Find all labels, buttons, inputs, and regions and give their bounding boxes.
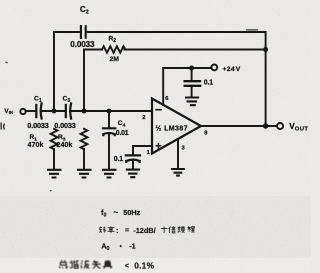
scan artifact dot top-left [6, 62, 8, 63]
scan artifact smear on top line [246, 29, 258, 31]
svg-text::: : [116, 226, 118, 235]
svg-text:0.1%: 0.1% [134, 261, 154, 271]
note line 2 hanzi: shi bei pin cheng (decade) [161, 227, 168, 234]
capacitor C4 [103, 128, 115, 135]
node B junction dot [82, 109, 87, 114]
ground (pin 3) [171, 169, 185, 176]
capacitor 0.1 at pin 1 [126, 155, 140, 162]
wire: C3 to op-amp inverting input pin 2 [70, 110, 152, 112]
wire: supply rail to +24V terminal [163, 67, 211, 69]
capacitor C2 [81, 26, 86, 38]
svg-text:0.0033: 0.0033 [54, 121, 76, 130]
op-amp minus sign [156, 109, 161, 111]
feedback/R2 junction dot [263, 47, 268, 52]
svg-text:•: • [120, 243, 122, 250]
VOUT terminal [277, 123, 283, 129]
svg-text:0.01: 0.01 [116, 130, 129, 137]
ground (R3) [77, 170, 92, 178]
resistor R2 [102, 46, 125, 53]
wire: C2 to right feedback corner [86, 31, 266, 33]
op-amp plus sign [156, 144, 160, 148]
resistor R1 [51, 129, 58, 149]
svg-text:50Hz: 50Hz [123, 208, 140, 217]
scan artifact dot below R1 [50, 190, 52, 193]
svg-text:470k: 470k [28, 142, 44, 149]
node A junction dot [52, 109, 57, 114]
wire: node A up to top feedback line [53, 32, 55, 111]
ground (R1) [47, 170, 62, 178]
svg-text:-1: -1 [129, 242, 136, 251]
wire: R1 bottom to ground [53, 149, 55, 169]
wire: node C down to C4 [108, 111, 110, 128]
wire: pin 3 to ground [177, 140, 179, 168]
wire: supply bypass capacitor drop [191, 68, 193, 80]
svg-text:0.0033: 0.0033 [27, 121, 49, 130]
svg-text:0.1: 0.1 [114, 156, 123, 163]
wire: supply bypass capacitor to ground [191, 87, 193, 97]
svg-text:-12dB/: -12dB/ [133, 226, 155, 235]
capacitor C3 [66, 104, 71, 119]
supply junction dot [189, 66, 194, 71]
wire: pin 6 up to supply rail [162, 68, 164, 105]
capacitor 0.1 supply bypass [185, 81, 201, 86]
note line 2 hanzi: xie lv (slope) [99, 227, 106, 233]
ground (C4) [102, 170, 117, 178]
wire: output pin 8 to VOUT [201, 125, 277, 127]
ground (pin 1 bypass) [126, 170, 140, 178]
op-amp U1 half LM387 [152, 99, 201, 154]
svg-text:2: 2 [142, 115, 145, 121]
wire: op-amp pin 1 to bypass capacitor [133, 146, 152, 154]
wire: C1 to node A [41, 110, 65, 112]
wire: top feedback line to C2 [54, 31, 81, 33]
wire: R2 line left segment [84, 49, 102, 51]
capacitor C1 [36, 104, 41, 119]
svg-text:=: = [125, 228, 129, 235]
wire: C4 to ground [108, 135, 110, 169]
wire: node B up to R2 line [83, 50, 85, 112]
svg-text:+24V: +24V [223, 66, 241, 73]
node C junction dot [107, 109, 112, 114]
wire: R3 bottom to ground [83, 149, 85, 169]
wire: feedback vertical down to output [265, 32, 267, 126]
svg-text:0.0033: 0.0033 [70, 40, 95, 49]
svg-text:240k: 240k [57, 142, 73, 149]
scan artifact left edge marks [1, 123, 4, 130]
VIN terminal [20, 109, 25, 114]
svg-text:<: < [125, 261, 130, 270]
wire: R2 to feedback vertical [125, 49, 266, 51]
svg-text:2M: 2M [110, 56, 120, 63]
output junction dot [263, 123, 268, 128]
+24V terminal [211, 65, 217, 71]
wire: VIN to C1 [26, 110, 36, 112]
svg-text:0.1: 0.1 [204, 80, 213, 87]
resistor R3 [81, 129, 88, 149]
wire: bypass capacitor to ground [132, 162, 134, 169]
note line 4 hanzi: zong xie bo shi zhen (total harmonic distortion) [59, 260, 67, 268]
ground (supply bypass) [185, 98, 199, 106]
svg-text:½ LM387: ½ LM387 [156, 125, 188, 133]
